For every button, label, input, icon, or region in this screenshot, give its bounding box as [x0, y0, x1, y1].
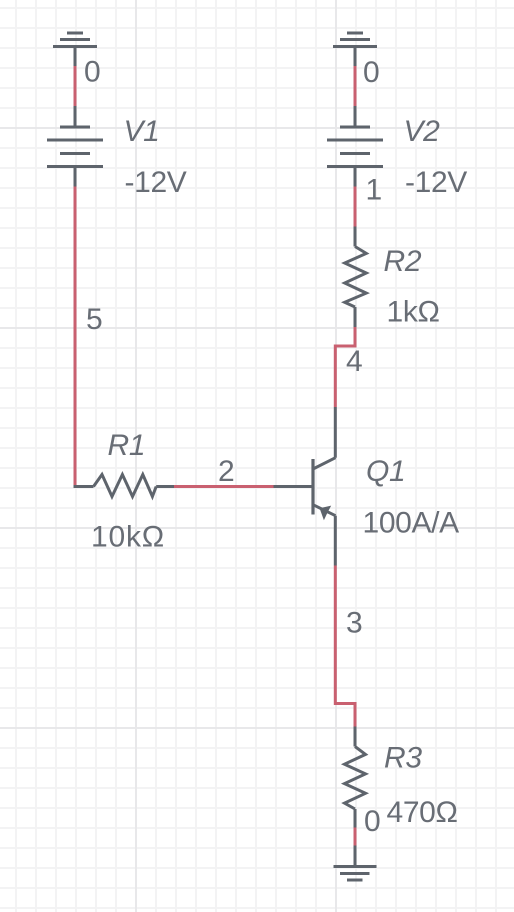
- resistor R2: [345, 227, 367, 328]
- svg-text:470Ω: 470Ω: [387, 796, 458, 829]
- resistor R3: [345, 727, 366, 828]
- svg-text:V2: V2: [404, 115, 441, 148]
- svg-text:V1: V1: [124, 115, 160, 148]
- svg-text:R1: R1: [108, 429, 146, 462]
- svg-text:4: 4: [346, 345, 362, 378]
- svg-text:R2: R2: [384, 245, 422, 278]
- svg-text:10kΩ: 10kΩ: [91, 521, 165, 554]
- battery V1: [47, 127, 103, 187]
- svg-text:1: 1: [366, 174, 382, 207]
- wire V2 top stub gray: [354, 106, 357, 127]
- svg-text:1kΩ: 1kΩ: [387, 296, 440, 329]
- transistor Q1 (PNP): [313, 458, 336, 521]
- svg-text:100A/A: 100A/A: [363, 507, 460, 540]
- wire GND1 stub gray: [74, 47, 77, 67]
- svg-text:0: 0: [363, 56, 379, 89]
- ground GND1 (top left): [53, 33, 97, 47]
- wire net 0 (left, red segment): [74, 66, 77, 106]
- resistor R1: [74, 475, 175, 497]
- ground GND2 (top right): [333, 33, 377, 47]
- wire GND2 stub gray: [354, 47, 357, 67]
- wire net 2 (red): [174, 485, 274, 488]
- wire net 1 (red): [354, 187, 357, 227]
- svg-text:Q1: Q1: [366, 455, 405, 488]
- battery V2: [327, 127, 383, 187]
- svg-text:5: 5: [86, 303, 102, 336]
- ground GND3 (bottom): [334, 867, 377, 881]
- svg-text:3: 3: [346, 607, 362, 640]
- wire net 0 (right, red segment): [354, 66, 357, 106]
- svg-text:0: 0: [364, 805, 380, 838]
- svg-text:0: 0: [84, 56, 100, 89]
- svg-text:R3: R3: [384, 742, 422, 775]
- wire net 3 (red): [335, 566, 355, 727]
- wire V1 top stub gray: [74, 106, 77, 127]
- svg-text:2: 2: [218, 455, 234, 488]
- svg-text:-12V: -12V: [125, 166, 187, 199]
- svg-text:-12V: -12V: [405, 166, 467, 199]
- wire net 5 (red): [74, 187, 77, 487]
- wire net 0 (bottom, red segment): [354, 828, 357, 846]
- wire GND3 stub gray: [354, 846, 357, 867]
- wire Q1 base stub gray: [274, 485, 315, 488]
- wire Q1 emitter stub gray: [334, 516, 337, 566]
- wire net 4 (red): [335, 327, 355, 407]
- wire Q1 collector stub gray: [334, 407, 337, 458]
